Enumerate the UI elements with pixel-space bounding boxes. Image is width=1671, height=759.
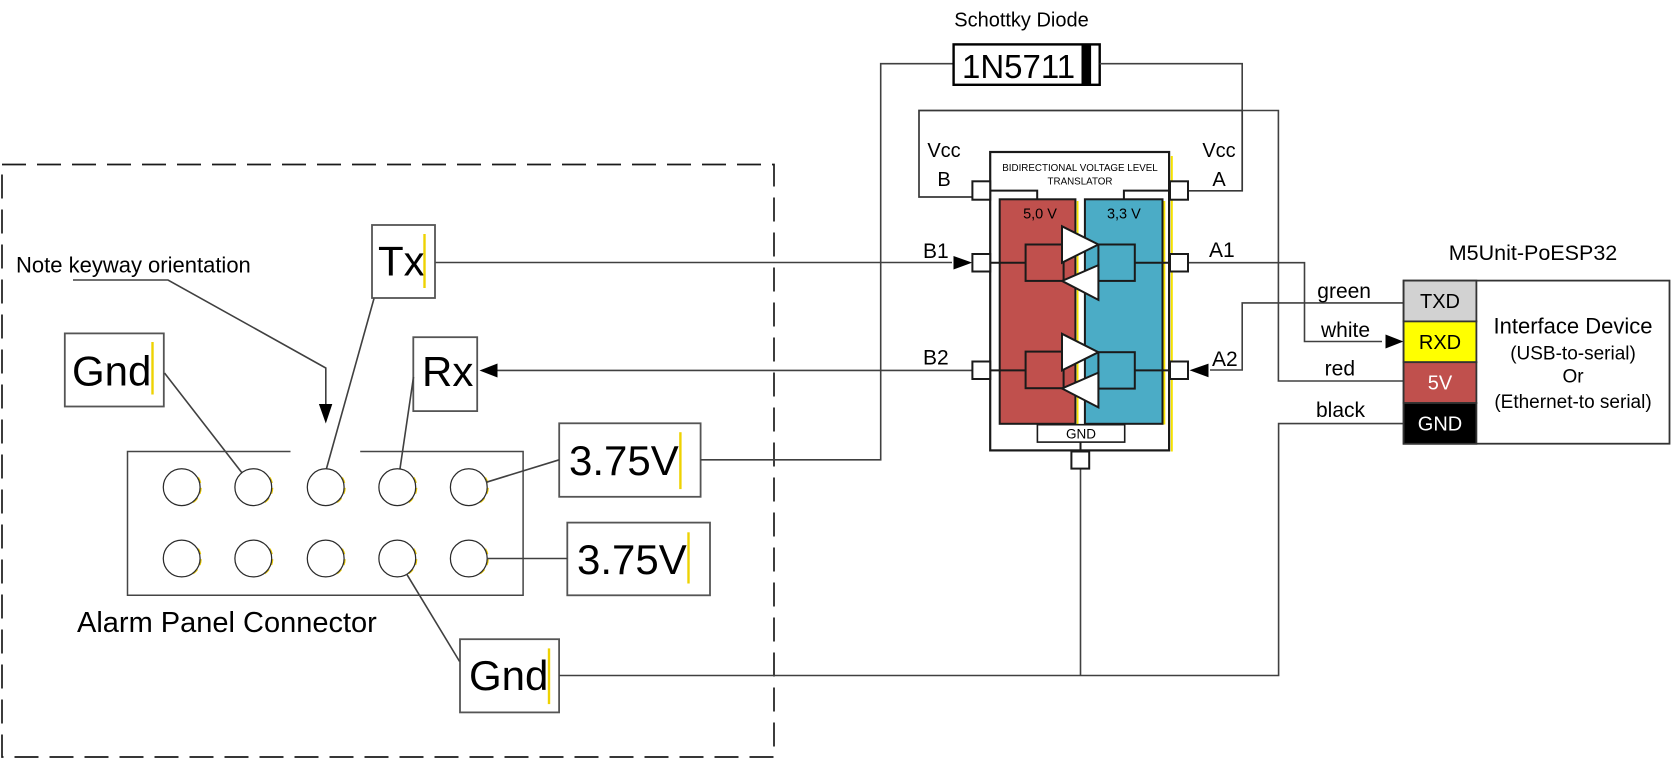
channel 1 buffer B to A [1062, 226, 1098, 262]
wire red Vcc to 5V pin [1242, 111, 1403, 382]
svg-text:Gnd: Gnd [469, 652, 548, 699]
svg-text:Tx: Tx [378, 238, 425, 285]
svg-text:Alarm Panel Connector: Alarm Panel Connector [77, 607, 377, 639]
svg-text:A: A [1212, 169, 1226, 191]
svg-text:TRANSLATOR: TRANSLATOR [1048, 176, 1113, 187]
wire TXD to A2 (green) [1210, 303, 1404, 370]
svg-text:green: green [1317, 280, 1371, 303]
arrowhead into A2 [1190, 364, 1209, 378]
channel 1 buffer A to B [1062, 265, 1098, 300]
svg-text:3.75V: 3.75V [577, 536, 687, 583]
diode D1 body [954, 44, 1100, 84]
connector J1 outline with keyway gap [128, 452, 524, 596]
wire pin 10 to 3.75V [487, 558, 568, 560]
channel 2 wire B side [990, 369, 1025, 371]
label box 3.75V (upper) [559, 423, 700, 497]
channel 1 B bus rect [1026, 245, 1064, 281]
pin GND bottom [1071, 452, 1089, 469]
svg-text:black: black [1316, 399, 1366, 422]
interface device box [1404, 281, 1670, 444]
translator GND drop wire [1080, 469, 1082, 676]
label box Rx [413, 337, 477, 411]
svg-text:Schottky Diode: Schottky Diode [954, 9, 1089, 31]
GND stub to bottom pin [1080, 442, 1082, 452]
pin B2 [972, 362, 990, 380]
note leader wire [73, 280, 326, 406]
wire Rx box to pin 4 [400, 377, 414, 469]
wire Tx box to pin 3 [327, 299, 375, 469]
svg-text:Gnd: Gnd [72, 348, 151, 395]
svg-text:A2: A2 [1212, 348, 1238, 371]
svg-text:A1: A1 [1209, 239, 1235, 262]
diode cathode band [1082, 44, 1092, 84]
svg-text:3.75V: 3.75V [569, 437, 679, 484]
wire Tx to B1 [436, 262, 953, 264]
svg-text:Vcc: Vcc [927, 140, 960, 162]
wire Gnd box to pin 2 [165, 373, 243, 474]
pin TXD [1404, 281, 1477, 322]
pin GND [1404, 403, 1477, 444]
wire pin 9 to Gnd [407, 574, 460, 662]
channel 2 B bus rect [1026, 352, 1064, 389]
pin RXD [1404, 321, 1477, 362]
svg-text:B: B [937, 169, 950, 191]
svg-text:5,0 V: 5,0 V [1023, 206, 1057, 222]
svg-text:(USB-to-serial): (USB-to-serial) [1510, 344, 1636, 365]
svg-text:Vcc: Vcc [1202, 140, 1235, 162]
label box Gnd (top) [65, 333, 164, 406]
svg-text:red: red [1325, 358, 1355, 381]
svg-text:GND: GND [1418, 413, 1462, 435]
arrowhead into B1 [954, 256, 973, 270]
svg-text:B1: B1 [923, 240, 949, 263]
svg-text:BIDIRECTIONAL VOLTAGE LEVEL: BIDIRECTIONAL VOLTAGE LEVEL [1002, 163, 1158, 174]
pin Vcc B [972, 181, 990, 199]
svg-text:TXD: TXD [1420, 291, 1460, 313]
svg-text:(Ethernet-to serial): (Ethernet-to serial) [1494, 392, 1651, 413]
wire diode cathode to Vcc node [1100, 64, 1243, 111]
svg-text:Rx: Rx [422, 348, 473, 395]
translator right yellow shadow [1171, 156, 1173, 452]
arrowhead into RXD [1386, 335, 1404, 349]
translator GND label box [1037, 425, 1124, 442]
channel 2 buffer A to B [1062, 373, 1098, 408]
3.3V rail (blue) [1085, 199, 1163, 423]
pin B1 [972, 254, 990, 272]
svg-text:white: white [1320, 319, 1370, 342]
Vcc B internal wire [990, 191, 1037, 200]
svg-text:3,3 V: 3,3 V [1107, 206, 1141, 222]
wire pin 5 to 3.75V [486, 460, 559, 483]
svg-text:M5Unit-PoESP32: M5Unit-PoESP32 [1449, 241, 1618, 265]
channel 2 buffer B to A [1062, 334, 1098, 371]
label box Tx [372, 225, 435, 298]
wire 3.75V to diode anode [701, 64, 954, 460]
connector pin holes row 2 [163, 540, 488, 577]
channel 1 wire A side [1135, 262, 1169, 264]
label box 3.75V (lower) [567, 523, 710, 596]
translator U1 outer box [990, 152, 1169, 450]
Vcc node loop wire [919, 111, 1242, 198]
pin Vcc A [1170, 181, 1188, 199]
Vcc A internal wire [1124, 191, 1169, 200]
svg-text:RXD: RXD [1419, 332, 1461, 354]
note arrowhead [319, 404, 332, 424]
pin A1 [1170, 254, 1188, 272]
svg-text:Interface Device: Interface Device [1494, 314, 1653, 339]
channel 2 A bus rect [1098, 352, 1134, 388]
svg-text:5V: 5V [1428, 373, 1453, 395]
label box Gnd (bottom) [460, 639, 559, 712]
svg-text:1N5711: 1N5711 [962, 48, 1075, 85]
pin 5V [1404, 362, 1477, 403]
svg-text:B2: B2 [923, 347, 949, 370]
wire B2 to Rx [497, 369, 972, 371]
alarm panel dashed enclosure [2, 165, 774, 758]
connector pin holes row 1 [163, 469, 488, 506]
pin A2 [1170, 362, 1188, 380]
arrowhead into Rx [480, 364, 498, 378]
channel 1 wire B side [990, 262, 1025, 264]
channel 1 A bus rect [1098, 245, 1134, 281]
svg-text:Note keyway orientation: Note keyway orientation [16, 253, 251, 278]
svg-text:GND: GND [1066, 427, 1096, 442]
ground bus wire [559, 424, 1404, 676]
svg-text:Or: Or [1562, 367, 1584, 388]
channel 2 wire A side [1135, 369, 1169, 371]
wire A1 to RXD (white) [1189, 263, 1382, 342]
5V rail (red) [1000, 199, 1076, 423]
